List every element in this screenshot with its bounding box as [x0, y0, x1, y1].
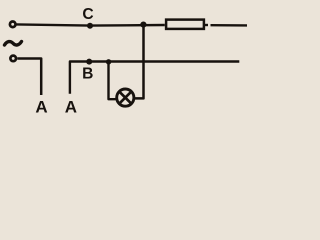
- svg-text:B: B: [82, 65, 93, 82]
- svg-text:A: A: [65, 98, 77, 116]
- svg-text:C: C: [82, 6, 93, 23]
- svg-text:A: A: [35, 98, 47, 116]
